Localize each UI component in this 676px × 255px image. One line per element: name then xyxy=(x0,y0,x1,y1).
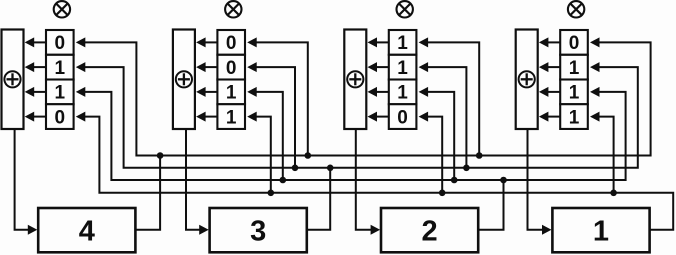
svg-text:1: 1 xyxy=(593,216,609,248)
wire: block B4 output up to bus 1 xyxy=(135,156,160,230)
arrowheads: feedback inputs into register R1 cells xyxy=(76,37,86,121)
arrowheads: feedback inputs into register R2 cells xyxy=(247,37,257,121)
feedback bus 2 (block B3 output) to R1/R4 cell 2 xyxy=(85,67,638,168)
svg-text:0: 0 xyxy=(569,33,580,54)
wire: bus 1 tap to register R3 cell 1 xyxy=(427,42,479,155)
svg-text:1: 1 xyxy=(226,107,237,128)
wire: bus 4 tap to register R4 cell 4 xyxy=(599,117,614,193)
feedback bus 1 (block B4 output) to R1/R4 cell 1 xyxy=(85,42,651,155)
block B4 ("4") xyxy=(38,208,135,252)
wire: bus 1 tap to register R2 cell 1 xyxy=(256,42,308,155)
shift register R4 cells (bits 0111) xyxy=(560,30,588,129)
svg-text:1: 1 xyxy=(55,83,66,104)
mod-2 adder U1 (circled plus) xyxy=(2,30,24,130)
feedback bus 4 (block B1 output) to R1 cell 4 xyxy=(85,117,674,230)
svg-text:1: 1 xyxy=(397,83,408,104)
svg-text:1: 1 xyxy=(569,83,580,104)
svg-text:4: 4 xyxy=(79,216,95,248)
multiplier symbol M1 (circled X) xyxy=(54,1,70,17)
wire: bus 4 tap to register R3 cell 4 xyxy=(427,117,442,193)
wire: bus 2 tap to register R2 cell 2 xyxy=(256,67,295,168)
wires: register R1 cell outputs to adder U1 (4 arrows) xyxy=(25,37,46,121)
svg-text:1: 1 xyxy=(55,58,66,79)
wire: bus 3 tap to register R3 cell 3 xyxy=(427,92,454,180)
wire: bus 4 tap to register R2 cell 4 xyxy=(256,117,271,193)
svg-text:0: 0 xyxy=(397,107,408,128)
shift register R3 cells (bits 1110) xyxy=(389,30,417,129)
arrowheads: feedback inputs into register R3 cells xyxy=(419,37,429,121)
multiplier symbol M4 (circled X) xyxy=(568,1,584,17)
wires: register R3 cell outputs to adder U3 (4 arrows) xyxy=(368,37,389,121)
svg-text:0: 0 xyxy=(226,58,237,79)
junction dots on feedback buses xyxy=(157,152,617,196)
shift register R2 cells (bits 0011) xyxy=(217,30,245,129)
feedback bus 3 (block B2 output) to R1/R4 cell 3 xyxy=(85,92,626,180)
wires: register R2 cell outputs to adder U2 (4 arrows) xyxy=(196,37,217,121)
mod-2 adder U4 (circled plus) xyxy=(516,30,538,130)
wire: adder U1 output down to block B4 input (arrow) xyxy=(15,129,38,235)
svg-text:0: 0 xyxy=(55,33,66,54)
wire: block B2 output up to bus 3 xyxy=(478,180,503,230)
block B3 ("3") xyxy=(210,208,307,252)
block B1 ("1") xyxy=(552,208,649,252)
mod-2 adder U2 (circled plus) xyxy=(173,30,195,130)
block B2 ("2") xyxy=(381,208,478,252)
svg-text:3: 3 xyxy=(250,216,266,248)
svg-text:1: 1 xyxy=(397,58,408,79)
shift register R1 cells (bits 0110) xyxy=(46,30,74,129)
mod-2 adder U3 (circled plus) xyxy=(344,30,366,130)
multiplier symbol M2 (circled X) xyxy=(225,1,241,17)
wire: adder U4 output down to block B1 input (arrow) xyxy=(528,129,552,235)
wire: adder U3 output down to block B2 input (arrow) xyxy=(356,129,380,235)
svg-text:0: 0 xyxy=(55,107,66,128)
svg-text:1: 1 xyxy=(226,83,237,104)
wire: block B3 output up to bus 2 xyxy=(307,168,330,230)
wire: adder U2 output down to block B3 input (arrow) xyxy=(186,129,209,235)
wires: register R4 cell outputs to adder U4 (4 arrows) xyxy=(539,37,560,121)
arrowheads: feedback inputs into register R4 cells xyxy=(590,37,600,121)
svg-text:1: 1 xyxy=(569,58,580,79)
wire: bus 3 tap to register R2 cell 3 xyxy=(256,92,283,180)
svg-text:0: 0 xyxy=(226,33,237,54)
svg-text:1: 1 xyxy=(397,33,408,54)
wire: bus 2 tap to register R3 cell 2 xyxy=(427,67,466,168)
multiplier symbol M3 (circled X) xyxy=(397,1,413,17)
svg-text:1: 1 xyxy=(569,107,580,128)
svg-text:2: 2 xyxy=(422,216,438,248)
